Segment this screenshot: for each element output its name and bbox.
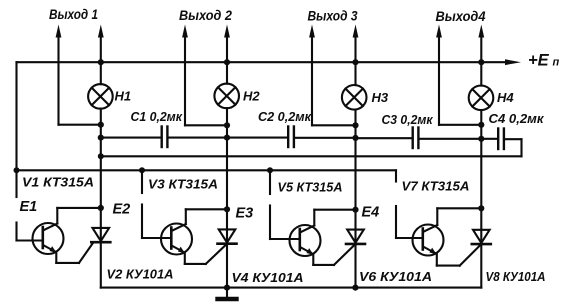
- wire: V7 collector up and to stage4 anode: [437, 208, 481, 225]
- wire: stage2 anode to C2 left plate: [227, 137, 287, 139]
- wire: base drop E3 lower segment to V5 base: [270, 206, 299, 240]
- transistor V3: [161, 224, 192, 255]
- transistor V7: [413, 225, 444, 256]
- wire: V1 emitter to V2 gate: [56, 253, 79, 263]
- thyristor V8: [460, 230, 491, 266]
- wire: V3 emitter to V4 gate: [185, 253, 206, 264]
- node: junction base bus / E2 drop: [139, 167, 145, 173]
- transistor V5: [290, 225, 321, 256]
- thyristor V2: [79, 228, 110, 263]
- wire: lamp H3 to anode node: [354, 110, 356, 244]
- wire: base drop E1 lower segment to V1 base: [17, 223, 43, 241]
- wire: bottom cathode rail: [101, 287, 482, 289]
- svg-text:Н4: Н4: [497, 90, 514, 105]
- node: junction bus1 with stage1 vertical: [98, 153, 104, 159]
- node: junction C2-C3 wire / stage3 anode: [352, 135, 358, 141]
- capacitor C3: [413, 128, 419, 149]
- label +Ep: [528, 52, 560, 70]
- svg-text:С4 0,2мк: С4 0,2мк: [489, 111, 545, 126]
- node: junction C3-C4 wire / stage4 anode: [478, 136, 484, 142]
- node: junction C1 wire / stage1 anode: [98, 135, 104, 141]
- capacitor C2: [288, 127, 294, 148]
- svg-text:п: п: [553, 57, 560, 69]
- wire: output3 main line with arrow: [353, 25, 359, 63]
- wire: stage3 anode to C3 left plate: [356, 137, 412, 139]
- wire: output2 left line with arrow: [182, 25, 227, 126]
- wire: output4 main line with arrow: [478, 25, 484, 63]
- wire: rail to lamp H1: [100, 62, 102, 84]
- svg-text:V4 КУ101А: V4 КУ101А: [232, 270, 304, 285]
- wire: anode feedback bus (bus1) from stage1 node to right side: [101, 155, 522, 157]
- svg-text:С1 0,2мк: С1 0,2мк: [131, 109, 184, 124]
- svg-text:Выход 3: Выход 3: [308, 9, 358, 25]
- wire: V6 cathode to bottom rail: [354, 245, 356, 288]
- svg-text:Е3: Е3: [236, 206, 254, 222]
- wire: V8 cathode to bottom rail: [480, 245, 482, 287]
- wire: V1 collector up and to stage1 anode: [57, 208, 101, 224]
- wire: V2 cathode to bottom rail: [100, 243, 102, 287]
- wire: V5 collector up and to stage3 anode: [314, 210, 355, 226]
- svg-text:V7 КТ315А: V7 КТ315А: [402, 179, 470, 194]
- svg-text:V5 КТ315А: V5 КТ315А: [278, 180, 343, 195]
- wire: lamp H2 to anode node: [226, 108, 228, 243]
- svg-text:С3 0,2мк: С3 0,2мк: [382, 112, 434, 127]
- wire: C3 right plate to stage4 anode: [420, 138, 482, 140]
- node: junction rail / stage3: [352, 59, 358, 65]
- node: junction output2-left wire / stage2 anode: [224, 122, 230, 128]
- wire: output1 left line with arrow: [56, 25, 101, 125]
- node: junction output3-left wire / stage3 anode: [352, 122, 358, 128]
- wire: base drop E2 lower segment to V3 base: [142, 205, 171, 239]
- svg-text:Е4: Е4: [362, 205, 380, 221]
- node: junction of left vertical with base bus: [14, 167, 20, 173]
- wire: base bus (bus2) horizontal: [17, 169, 397, 171]
- svg-text:С2 0,2мк: С2 0,2мк: [258, 109, 312, 124]
- wire: +Ep top rail: [17, 61, 509, 63]
- lamp H1: [88, 84, 113, 109]
- lamp H2: [214, 84, 239, 109]
- wire: stage4 anode to C4 left plate: [481, 138, 497, 140]
- svg-text:V2 КУ101А: V2 КУ101А: [107, 267, 174, 282]
- svg-text:+Е: +Е: [528, 52, 550, 70]
- capacitor C4: [498, 129, 504, 150]
- node: junction V5 collector / stage3 anode: [352, 207, 358, 213]
- wire: V5 emitter to V6 gate: [313, 255, 334, 265]
- svg-text:Н3: Н3: [372, 90, 389, 105]
- wire: lamp H4 to anode node: [480, 110, 482, 244]
- wire: left edge vertical from rail corner down to base bus: [15, 62, 17, 170]
- node: junction V7 collector / stage4 anode: [478, 205, 484, 211]
- arrow head of +Ep rail: [505, 59, 521, 65]
- node: junction rail / stage1: [98, 59, 104, 65]
- wire: V4 cathode to bottom rail: [226, 245, 228, 288]
- wire: base drop E3 upper segment: [269, 170, 271, 194]
- wire: lamp H1 to anode node: [100, 109, 102, 242]
- wire: rail to lamp H2: [226, 62, 228, 83]
- wire: C1 right plate to stage2 anode: [169, 137, 228, 139]
- svg-text:Выход4: Выход4: [436, 9, 486, 25]
- svg-text:V6 КУ101А: V6 КУ101А: [359, 269, 432, 284]
- wire: base drop E1 upper segment: [15, 170, 17, 197]
- svg-text:Е2: Е2: [113, 202, 131, 218]
- transistor V1: [33, 223, 64, 254]
- wire: C4 right plate to right corner: [505, 138, 522, 140]
- node: junction C1-C2 wire / stage2 anode: [224, 135, 230, 141]
- wire: output3 left line with arrow: [309, 25, 355, 126]
- ground symbol: [218, 288, 237, 299]
- wire: base drop E4 lower segment to V7 base: [396, 206, 422, 238]
- wire: right side corner vertical joining C4 to bus1: [520, 139, 522, 156]
- node: junction V3 collector / stage2 anode: [224, 206, 230, 212]
- wire: stage1 anode to C1 left plate: [101, 137, 161, 139]
- svg-text:Н2: Н2: [243, 89, 260, 104]
- node: junction bottom rail / stage2 cathode: [224, 285, 230, 291]
- svg-text:V1 КТ315А: V1 КТ315А: [22, 175, 94, 190]
- node: junction rail / stage4: [478, 59, 484, 65]
- node: junction bottom rail / stage3 cathode: [352, 285, 358, 291]
- svg-text:Е1: Е1: [20, 199, 38, 215]
- wire: C2 right plate to stage3 anode: [295, 137, 356, 139]
- node: junction output-left wire / stage1 anode: [98, 122, 104, 128]
- thyristor V4: [206, 229, 237, 264]
- svg-text:Выход 1: Выход 1: [49, 7, 98, 23]
- svg-text:V3 КТ315А: V3 КТ315А: [148, 177, 218, 192]
- wire: rail to lamp H3: [354, 62, 356, 85]
- node: junction output4-left wire / stage4 anode: [478, 122, 484, 128]
- lamp H4: [469, 86, 494, 111]
- node: junction rail / stage2: [224, 59, 230, 65]
- node: junction base bus / E3 drop: [267, 167, 273, 173]
- lamp H3: [342, 85, 367, 110]
- svg-text:V8 КУ101А: V8 КУ101А: [486, 269, 546, 284]
- svg-text:Н1: Н1: [115, 89, 132, 104]
- wire: V3 collector up and to stage2 anode: [186, 209, 227, 224]
- capacitor C1: [162, 127, 168, 148]
- wire: base bus corner down to E4 drop: [395, 170, 397, 181]
- thyristor V6: [334, 230, 365, 265]
- wire: output2 main line with arrow: [224, 25, 230, 63]
- svg-text:Выход 2: Выход 2: [179, 8, 232, 24]
- wire: rail to lamp H4: [480, 62, 482, 85]
- wire: output1 main line with arrow: [98, 25, 104, 63]
- wire: base drop E2 upper segment: [141, 170, 143, 193]
- wire: output4 left line with arrow: [436, 25, 481, 125]
- node: junction V1 collector / stage1 anode: [98, 205, 104, 211]
- wire: V7 emitter to V8 gate: [437, 254, 460, 266]
